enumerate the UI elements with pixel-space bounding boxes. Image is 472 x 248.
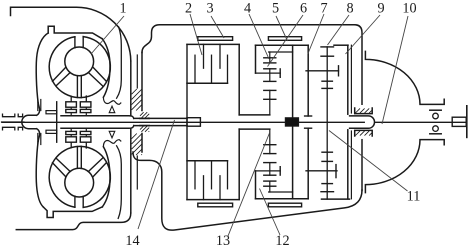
ground symbol on stator shaft upper: [140, 112, 149, 118]
lower clutch hub finger a: [194, 161, 196, 189]
housing flange wall upper: [136, 55, 138, 88]
carrier line upper: [256, 72, 281, 74]
turbine shaft upper line: [61, 116, 134, 119]
rear housing bottom arc: [365, 140, 444, 193]
lower clutch finger b: [219, 176, 221, 200]
stator hub box lower-right: [80, 137, 91, 142]
stator hub box upper-right: [80, 102, 91, 107]
lower clutch drum bottom line: [187, 199, 239, 201]
output drum wall b upper: [350, 45, 352, 113]
brake band lower-left: [198, 203, 233, 207]
output flange bar: [466, 106, 468, 138]
output drum wall a lower: [347, 130, 349, 199]
turbine shaft lower line: [61, 126, 134, 129]
leader 12: [260, 189, 281, 236]
clutch hub up-finger b: [211, 55, 213, 83]
output hub pill: [350, 116, 375, 128]
svg-text:7: 7: [320, 1, 327, 17]
carrier T-bar upper: [279, 69, 281, 77]
input coupling staple lower-wide: [3, 127, 15, 130]
leader 10: [382, 16, 408, 124]
planet gear symbol lower: [264, 174, 276, 176]
svg-text:6: 6: [300, 1, 307, 17]
case joint wall lower: [141, 134, 143, 153]
hub stems to shaft upper: [70, 107, 72, 109]
bell housing inner wall lower: [117, 146, 122, 219]
one-way clutch triangle lower: [109, 131, 115, 138]
leader 1: [91, 16, 124, 54]
turbine stem upper-left: [70, 96, 72, 101]
converter cover top with tab: [48, 26, 102, 39]
converter cover left C-arc lower: [36, 141, 43, 207]
leader 6: [268, 15, 304, 67]
planetary1 lower outer wall: [307, 128, 309, 199]
planetary1 lower inner line: [269, 191, 293, 193]
case top-right corner and right wall: [355, 25, 362, 105]
leader 5: [276, 16, 288, 41]
svg-text:5: 5: [272, 1, 279, 17]
sun gear symbol upper: [264, 89, 276, 91]
ground symbol on stator shaft lower: [140, 126, 149, 132]
gear2 caps lower: [322, 160, 332, 162]
clutch drum finger a: [203, 44, 205, 68]
clutch drum top line: [187, 43, 239, 45]
turbine hub box upper-left: [66, 102, 77, 107]
planetary1 lower drum bottom line: [256, 198, 309, 200]
lower clutch outer frame wall: [238, 129, 240, 199]
brake band lower-mid: [268, 203, 301, 207]
leader 9: [346, 15, 381, 54]
leader 7: [308, 14, 324, 54]
clutch frame to sun line: [239, 114, 270, 116]
planetary1 inner top line: [269, 51, 293, 53]
sun gear symbol lower: [264, 153, 276, 155]
input coupling staple lower-narrow: [18, 127, 22, 130]
converter housing outer shell top-left: [11, 7, 131, 61]
hatch housing-case joint upper: [132, 89, 142, 111]
carrier T-bar lower: [279, 167, 281, 175]
housing flange wall lower: [136, 156, 138, 189]
clutch hub bottom line: [187, 82, 228, 84]
converter housing right wall lower: [130, 129, 132, 213]
svg-text:11: 11: [407, 189, 421, 205]
pump hub wall: [56, 102, 58, 142]
converter cover left C-arc upper: [36, 33, 48, 103]
bell housing inner wall upper: [117, 27, 122, 98]
stator stem upper-right: [85, 96, 87, 102]
lower clutch frame to sun line: [239, 128, 270, 130]
planetary1 left wall: [255, 45, 257, 73]
oil pan line: [16, 213, 131, 230]
ring gear symbol lower: [269, 181, 271, 192]
gear2 caps upper: [322, 80, 332, 82]
svg-text:9: 9: [377, 1, 384, 17]
stator hub bar lower-right: [80, 131, 91, 134]
turbine stem lower-left: [70, 142, 72, 147]
stator shaft upper line: [134, 117, 187, 119]
carrier2 T-bar upper: [338, 66, 340, 76]
case lower-left wall: [133, 152, 362, 230]
planetary1 lower left wall: [255, 171, 257, 199]
center shaft long: [326, 47, 328, 199]
one-way clutch wave upper: [103, 97, 120, 104]
svg-text:12: 12: [275, 233, 289, 248]
turbine hub bar lower-left: [66, 131, 77, 134]
shaft box on axis: [187, 118, 200, 127]
stator shaft lower line: [134, 125, 187, 127]
planetary1 lower outer wall foot: [305, 127, 312, 129]
cover spline ticks upper: [37, 100, 39, 111]
rear housing top arc: [365, 51, 444, 104]
ring gear2 symbol lower: [321, 191, 334, 193]
cover spline ticks lower: [37, 134, 39, 145]
input shaft axis stub: [2, 121, 25, 123]
carrier2 line lower: [306, 170, 337, 172]
carrier line lower: [256, 170, 281, 172]
planetary1 right wall to coupling: [292, 45, 294, 118]
leader 14: [138, 120, 175, 229]
lower clutch hub finger b: [211, 161, 213, 189]
hatch housing-case joint lower: [132, 134, 142, 156]
svg-text:3: 3: [206, 1, 213, 17]
pump spline tab upper: [46, 111, 57, 114]
input coupling staple upper-narrow: [18, 114, 22, 117]
planetary2 top line: [334, 44, 348, 46]
leader 8: [328, 15, 350, 45]
svg-text:1: 1: [119, 1, 126, 17]
pump spline tab lower: [46, 130, 57, 133]
center coupling black square: [285, 118, 298, 127]
leader 2: [190, 14, 202, 55]
hub stems to shaft lower: [70, 135, 72, 137]
lower clutch hub finger c: [227, 161, 229, 189]
planet gear symbol upper: [264, 68, 276, 70]
converter cover right wall upper: [102, 39, 110, 97]
converter cover right wall lower: [102, 147, 110, 207]
svg-text:13: 13: [216, 233, 230, 248]
lower clutch finger a: [203, 176, 205, 200]
input coupling staple upper-wide: [3, 114, 15, 117]
case left wall top S-curve: [142, 25, 160, 53]
case bearing pocket upper: [355, 108, 373, 114]
fork to cover S upper: [37, 103, 40, 115]
output drum wall a upper: [347, 45, 349, 114]
one-way clutch wave lower: [103, 140, 120, 147]
turbine hub box lower-left: [66, 137, 77, 142]
stator hub bar upper-right: [80, 109, 91, 112]
output bearing lower: [430, 133, 441, 135]
leader 3: [211, 16, 224, 38]
clutch hub up-finger c: [227, 55, 229, 83]
clutch drum left wall: [186, 44, 188, 199]
lower clutch hub top line: [187, 160, 228, 162]
carrier2 T-bar lower: [335, 165, 337, 178]
planetary1 outer wall 6: [307, 45, 309, 116]
output bearing upper: [430, 109, 441, 111]
planetary1 outer wall foot: [305, 115, 312, 117]
case joint wall upper: [141, 53, 143, 111]
clutch outer frame wall: [238, 45, 240, 115]
ring gear2 symbol upper: [321, 46, 334, 48]
brake band 5 upper: [268, 37, 301, 41]
svg-text:8: 8: [346, 1, 353, 17]
output drum wall b lower: [350, 131, 352, 199]
planetary1 drum top line: [256, 44, 309, 46]
converter housing right wall upper: [130, 61, 132, 115]
input drive fork pill: [22, 115, 37, 128]
svg-text:10: 10: [402, 1, 416, 17]
case top line: [160, 24, 355, 26]
case right wall lower: [361, 140, 363, 191]
brake band 3 upper: [198, 37, 233, 41]
planetary1 lower right wall: [292, 126, 294, 199]
leader 4: [249, 14, 269, 59]
torque converter wheel upper (pump/turbine/stator) label 1: [49, 37, 110, 98]
one-way clutch triangle upper: [109, 106, 115, 113]
clutch drum finger b: [219, 44, 221, 68]
carrier2 line upper: [306, 70, 339, 72]
converter cover bottom with tab: [43, 207, 102, 218]
case bearing pocket lower: [355, 130, 373, 136]
svg-text:2: 2: [185, 1, 192, 17]
leader 11: [329, 131, 408, 192]
turbine hub bar upper-left: [66, 109, 77, 112]
output coupling box: [452, 117, 466, 126]
planetary2 bottom line: [322, 198, 350, 200]
ring gear symbol upper: [269, 52, 271, 63]
svg-text:14: 14: [125, 233, 139, 248]
main axis right: [376, 121, 467, 123]
clutch hub up-finger a: [194, 55, 196, 83]
leader 13: [228, 133, 270, 236]
fork to cover S lower: [37, 129, 40, 141]
stator stem lower-right: [85, 142, 87, 148]
svg-text:4: 4: [244, 1, 251, 17]
main axis left: [2, 121, 364, 123]
torque converter wheel lower: [49, 146, 110, 207]
